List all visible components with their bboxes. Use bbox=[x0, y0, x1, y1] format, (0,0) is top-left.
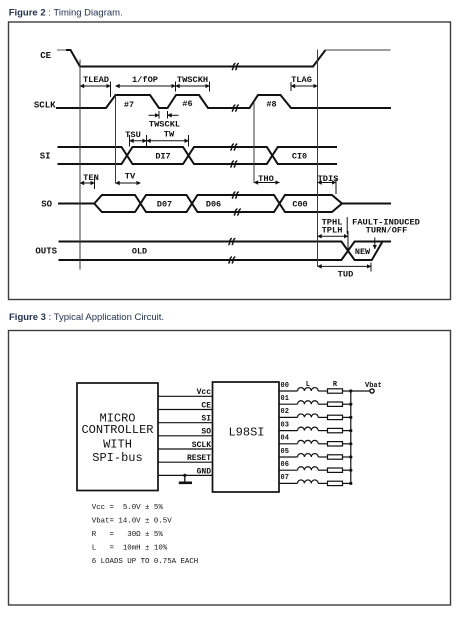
svg-text:SO: SO bbox=[201, 428, 211, 437]
svg-text:Figure 2 : Timing Diagram.: Figure 2 : Timing Diagram. bbox=[9, 8, 123, 19]
wire OUTS bus line B bbox=[59, 242, 392, 261]
wire Vcc bbox=[158, 395, 213, 397]
fault arrow bbox=[374, 238, 376, 250]
junction row1 bbox=[349, 403, 352, 406]
reference line at CE rise bbox=[317, 50, 319, 267]
inductor L row4 bbox=[298, 440, 319, 443]
svg-text:NEW: NEW bbox=[355, 247, 371, 257]
svg-text:04: 04 bbox=[281, 435, 289, 443]
resistor R row7 bbox=[328, 481, 343, 485]
timing arrow TDIS bbox=[318, 179, 337, 195]
resistor R row0 bbox=[328, 389, 343, 393]
svg-text:WITH: WITH bbox=[103, 438, 132, 452]
supply bus bbox=[350, 391, 352, 483]
wire SI bbox=[158, 422, 213, 424]
svg-text:GND: GND bbox=[197, 467, 212, 476]
svg-text:CE: CE bbox=[40, 51, 51, 61]
inductor L row2 bbox=[298, 414, 319, 417]
timing arrow TW bbox=[147, 135, 189, 147]
svg-text:CE: CE bbox=[201, 401, 211, 410]
junction row0 bbox=[349, 389, 352, 392]
terminal Vbat bbox=[370, 389, 374, 393]
wire GND bbox=[158, 474, 213, 476]
wire CE waveform bbox=[57, 49, 66, 51]
driver IC L98SI bbox=[213, 382, 280, 492]
wire SI bus line A bbox=[58, 147, 338, 164]
svg-text:02: 02 bbox=[281, 408, 289, 416]
junction row6 bbox=[349, 469, 352, 472]
wire output 00 bbox=[279, 382, 352, 393]
inductor L row6 bbox=[298, 467, 319, 470]
wire RESET bbox=[158, 461, 213, 463]
svg-text:01: 01 bbox=[281, 395, 289, 403]
ground bbox=[179, 475, 192, 482]
svg-text:TWSCKH: TWSCKH bbox=[177, 75, 208, 85]
resistor R row6 bbox=[328, 468, 343, 472]
resistor R row4 bbox=[328, 442, 343, 446]
svg-text:TUD: TUD bbox=[338, 270, 354, 280]
svg-text:6 LOADS UP TO 0.75A EACH: 6 LOADS UP TO 0.75A EACH bbox=[92, 558, 198, 566]
svg-text:03: 03 bbox=[281, 421, 289, 429]
wire output 07 bbox=[279, 474, 352, 485]
svg-text:TV: TV bbox=[125, 172, 136, 182]
svg-text:DI7: DI7 bbox=[155, 152, 170, 162]
svg-text:TEN: TEN bbox=[83, 173, 99, 183]
svg-text:Figure 3 : Typical Application: Figure 3 : Typical Application Circuit. bbox=[9, 312, 164, 323]
resistor R row2 bbox=[328, 415, 343, 419]
annotation values bbox=[92, 504, 198, 566]
svg-text:TDIS: TDIS bbox=[318, 174, 339, 184]
figure 2 frame bbox=[9, 22, 451, 300]
wire output 06 bbox=[279, 461, 352, 472]
svg-text:SCLK: SCLK bbox=[34, 101, 56, 111]
svg-text:07: 07 bbox=[281, 474, 289, 482]
wire SO bbox=[158, 435, 213, 437]
svg-text:D07: D07 bbox=[157, 200, 172, 210]
svg-text:OLD: OLD bbox=[132, 247, 147, 257]
svg-text:R: R bbox=[333, 381, 338, 389]
svg-text:#6: #6 bbox=[182, 99, 192, 109]
reference line at CE fall bbox=[79, 60, 81, 270]
timing arrow TLEAD bbox=[80, 82, 111, 98]
wire output 04 bbox=[279, 435, 352, 446]
svg-text:Vcc = 5.0V ± 5%: Vcc = 5.0V ± 5% bbox=[92, 504, 164, 512]
wire SO bus line A bbox=[58, 195, 391, 212]
wire CE high after rise bbox=[326, 49, 391, 51]
inductor L row3 bbox=[298, 427, 319, 430]
wire output 02 bbox=[279, 408, 352, 419]
timing arrow THO bbox=[254, 182, 280, 184]
svg-text:SI: SI bbox=[201, 415, 211, 424]
svg-text:RESET: RESET bbox=[187, 454, 211, 463]
svg-text:D06: D06 bbox=[206, 200, 221, 210]
reference line at SCLK first rise bbox=[115, 95, 117, 184]
svg-text:TURN/OFF: TURN/OFF bbox=[366, 226, 408, 236]
svg-text:CONTROLLER: CONTROLLER bbox=[81, 423, 153, 437]
wire output 05 bbox=[279, 448, 352, 459]
figure 3 frame bbox=[9, 331, 451, 606]
svg-text:THO: THO bbox=[258, 174, 274, 184]
junction row7 bbox=[349, 482, 352, 485]
junction row3 bbox=[349, 429, 352, 432]
wire OUTS bus line A bbox=[59, 242, 383, 261]
svg-text:L98SI: L98SI bbox=[228, 426, 264, 440]
svg-text:L = 10mH ± 10%: L = 10mH ± 10% bbox=[92, 545, 168, 553]
svg-text:R = 30Ω ± 5%: R = 30Ω ± 5% bbox=[92, 531, 164, 539]
timing arrow TV bbox=[116, 182, 141, 184]
svg-text:TW: TW bbox=[164, 130, 175, 140]
svg-text:TLEAD: TLEAD bbox=[83, 75, 109, 85]
timing arrow TLAG bbox=[291, 82, 318, 91]
timing arrow TWSCKH bbox=[176, 82, 210, 92]
svg-text:TWSCKL: TWSCKL bbox=[149, 120, 180, 130]
wire SI bus line B bbox=[58, 147, 338, 164]
wire output 01 bbox=[279, 395, 352, 406]
svg-text:Vbat: Vbat bbox=[365, 382, 382, 390]
inductor L row7 bbox=[298, 480, 319, 483]
svg-text:SI: SI bbox=[40, 152, 51, 162]
wire CE bbox=[158, 409, 213, 411]
reference line at SCLK last pulse bbox=[253, 102, 255, 184]
svg-text:TSU: TSU bbox=[125, 130, 141, 140]
svg-text:SCLK: SCLK bbox=[192, 441, 211, 450]
svg-text:TPLH: TPLH bbox=[322, 226, 343, 236]
separator bar bbox=[346, 217, 348, 234]
svg-text:SPI-bus: SPI-bus bbox=[92, 451, 142, 465]
wire output 03 bbox=[279, 421, 352, 432]
svg-text:TLAG: TLAG bbox=[291, 75, 312, 85]
svg-text:06: 06 bbox=[281, 461, 289, 469]
timing arrow TPHL TPLH bbox=[318, 231, 349, 252]
svg-text:CI0: CI0 bbox=[292, 152, 307, 162]
timing arrow TEN bbox=[80, 177, 95, 189]
timing arrow TUD bbox=[318, 263, 372, 272]
timing arrow TSU bbox=[130, 135, 147, 147]
wire Vbat feed bbox=[351, 390, 370, 392]
inductor L row1 bbox=[298, 401, 319, 404]
timing arrow 1/fOP bbox=[116, 82, 176, 92]
timing arrow TWSCKL bbox=[149, 111, 179, 119]
wire SCLK waveform bbox=[56, 95, 391, 108]
svg-text:#8: #8 bbox=[266, 100, 276, 110]
junction row2 bbox=[349, 416, 352, 419]
resistor R row3 bbox=[328, 428, 343, 432]
inductor L row0 bbox=[298, 388, 319, 391]
svg-text:OUTS: OUTS bbox=[35, 247, 57, 257]
svg-text:L: L bbox=[306, 381, 310, 389]
break marks bbox=[228, 63, 241, 263]
junction row4 bbox=[349, 442, 352, 445]
resistor R row5 bbox=[328, 455, 343, 459]
svg-text:Vbat= 14.0V ± 0.5V: Vbat= 14.0V ± 0.5V bbox=[92, 518, 172, 526]
resistor R row1 bbox=[328, 402, 343, 406]
svg-text:00: 00 bbox=[281, 382, 289, 390]
svg-text:C00: C00 bbox=[292, 200, 307, 210]
svg-text:SO: SO bbox=[41, 200, 52, 210]
wire SO bus line B bbox=[94, 195, 342, 212]
svg-text:05: 05 bbox=[281, 448, 289, 456]
svg-text:Vcc: Vcc bbox=[197, 388, 212, 397]
microcontroller U1 bbox=[77, 383, 158, 491]
wire SCLK bbox=[158, 448, 213, 450]
junction row5 bbox=[349, 455, 352, 458]
svg-text:#7: #7 bbox=[124, 100, 134, 110]
inductor L row5 bbox=[298, 454, 319, 457]
svg-text:1/fOP: 1/fOP bbox=[132, 75, 158, 85]
